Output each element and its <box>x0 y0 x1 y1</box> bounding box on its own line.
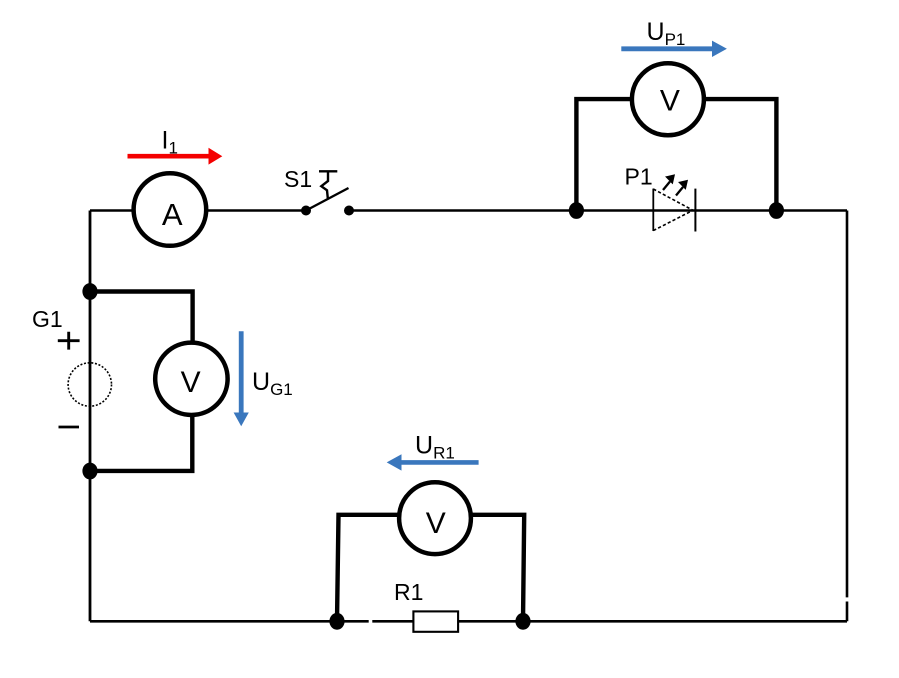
ammeter A1 <box>134 173 207 246</box>
wire right vertical <box>846 211 849 622</box>
wire bottom <box>90 620 847 623</box>
voltmeter U_R1 <box>399 482 471 554</box>
source G1 (dashed circle) <box>68 363 111 406</box>
svg-text:R1: R1 <box>394 579 423 605</box>
LED P1 symbol <box>653 189 695 232</box>
svg-text:V: V <box>660 85 680 118</box>
node: G1 bottom junction <box>82 463 97 480</box>
svg-text:S1: S1 <box>284 166 312 192</box>
node: R1 left junction <box>329 613 344 630</box>
voltage arrow U_G1 (blue) <box>234 331 249 426</box>
node: P1 left junction <box>569 202 584 219</box>
switch contact dot right <box>344 206 354 216</box>
wire switch to right corner <box>349 209 847 212</box>
svg-text:P1: P1 <box>625 163 653 189</box>
switch contact dot left <box>301 206 311 216</box>
wire left vertical <box>89 211 92 622</box>
switch S1 <box>306 171 349 210</box>
svg-text:G1: G1 <box>32 306 63 332</box>
plus sign <box>58 332 80 350</box>
LED P1 emission arrows <box>663 176 687 196</box>
voltmeter U_R1 branch wires <box>337 515 524 621</box>
voltmeter U_G1 branch wires <box>90 292 193 471</box>
voltmeter U_P1 <box>632 63 704 135</box>
node: G1 top junction <box>82 283 97 300</box>
wire ammeter to switch <box>207 209 306 212</box>
svg-text:V: V <box>181 366 201 399</box>
resistor R1 <box>413 611 458 631</box>
svg-text:V: V <box>426 507 446 540</box>
voltage arrow U_P1 (blue) <box>621 41 727 57</box>
voltage arrow U_R1 (blue, pointing left) <box>387 454 479 470</box>
voltmeter U_G1 <box>155 343 227 415</box>
svg-text:A: A <box>162 197 183 232</box>
voltmeter U_P1 branch wires <box>576 99 776 210</box>
current arrow I1 (red) <box>128 148 223 165</box>
node: R1 right junction <box>515 613 530 630</box>
wire top left segment <box>90 209 133 212</box>
minus sign <box>59 426 80 429</box>
node: P1 right junction <box>769 202 784 219</box>
